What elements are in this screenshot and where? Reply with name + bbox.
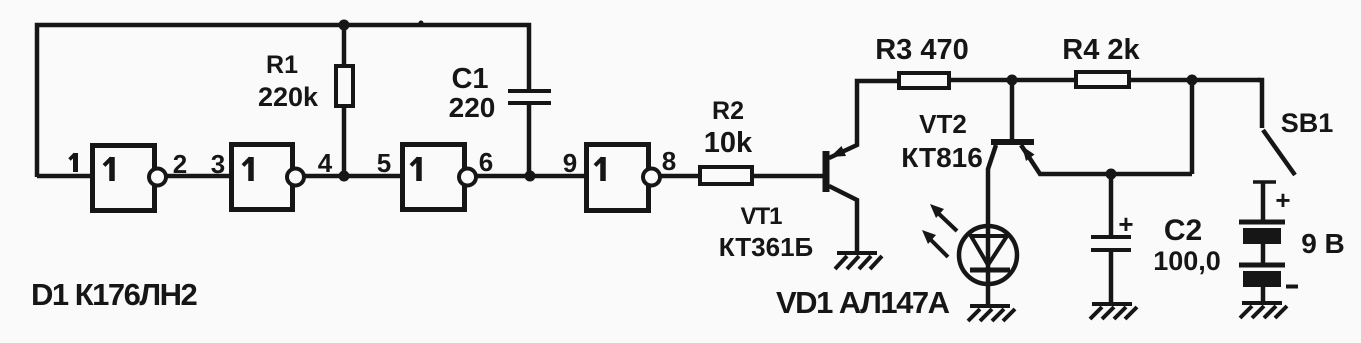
svg-text:+: + bbox=[1275, 185, 1290, 215]
svg-text:220: 220 bbox=[449, 92, 496, 123]
svg-text:D1 К176ЛН2: D1 К176ЛН2 bbox=[31, 277, 197, 312]
svg-text:9: 9 bbox=[563, 148, 577, 178]
svg-text:10k: 10k bbox=[704, 127, 753, 159]
svg-text:6: 6 bbox=[479, 147, 493, 177]
svg-text:SB1: SB1 bbox=[1281, 108, 1334, 138]
svg-text:100,0: 100,0 bbox=[1153, 246, 1221, 276]
svg-text:C1: C1 bbox=[451, 63, 488, 95]
svg-text:C2: C2 bbox=[1164, 214, 1202, 247]
svg-text:2: 2 bbox=[173, 149, 187, 179]
svg-text:5: 5 bbox=[377, 148, 391, 178]
svg-text:4: 4 bbox=[318, 148, 333, 178]
svg-text:+: + bbox=[1118, 209, 1133, 239]
svg-text:КТ361Б: КТ361Б bbox=[719, 232, 813, 262]
svg-text:R2: R2 bbox=[712, 97, 744, 125]
svg-text:9 В: 9 В bbox=[1301, 228, 1345, 259]
svg-text:8: 8 bbox=[662, 146, 676, 176]
svg-text:VT1: VT1 bbox=[740, 203, 782, 230]
svg-text:220k: 220k bbox=[258, 82, 319, 112]
svg-text:VT2: VT2 bbox=[919, 109, 967, 139]
svg-text:R1: R1 bbox=[266, 51, 298, 79]
svg-text:R3 470: R3 470 bbox=[875, 34, 969, 66]
svg-text:R4 2k: R4 2k bbox=[1062, 34, 1140, 66]
svg-text:3: 3 bbox=[211, 149, 225, 179]
svg-text:КТ816: КТ816 bbox=[901, 142, 983, 173]
svg-text:VD1 АЛ147А: VD1 АЛ147А bbox=[776, 285, 950, 320]
